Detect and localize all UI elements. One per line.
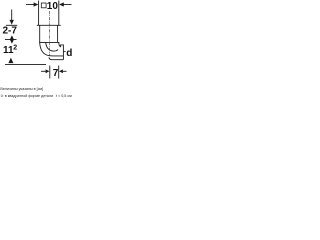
- square symbol: [41, 3, 46, 8]
- svg-text:7: 7: [53, 68, 59, 79]
- svg-text:10: 10: [47, 1, 59, 12]
- svg-text:d: d: [66, 48, 72, 59]
- top dim tails: [26, 4, 34, 6]
- d leader: [64, 51, 66, 53]
- bowl outer: [40, 42, 64, 56]
- svg-text:2: 2: [13, 45, 17, 52]
- center dash-dot line: [49, 11, 51, 56]
- svg-text:② в квадратной форме детали: ② в квадратной форме детали t ≈ 0,5 см: [0, 94, 72, 98]
- diamond: [10, 35, 14, 43]
- left dim column: [11, 10, 13, 21]
- arrows top dim: [34, 2, 39, 6]
- up arrow: [8, 58, 13, 64]
- svg-text:Величины указаны в [см]: Величины указаны в [см]: [0, 87, 43, 91]
- bottom 7 arrows: [46, 69, 50, 73]
- svg-text:2-7: 2-7: [3, 26, 18, 37]
- bottom 7 dim: [49, 66, 51, 79]
- pipe walls: [38, 1, 40, 26]
- bowl inner arc: [46, 42, 58, 51]
- outlet top s-curve + rim: [59, 42, 64, 59]
- socket: [37, 24, 61, 26]
- outlet bottom: [49, 57, 63, 59]
- left col: down arrow: [10, 20, 14, 25]
